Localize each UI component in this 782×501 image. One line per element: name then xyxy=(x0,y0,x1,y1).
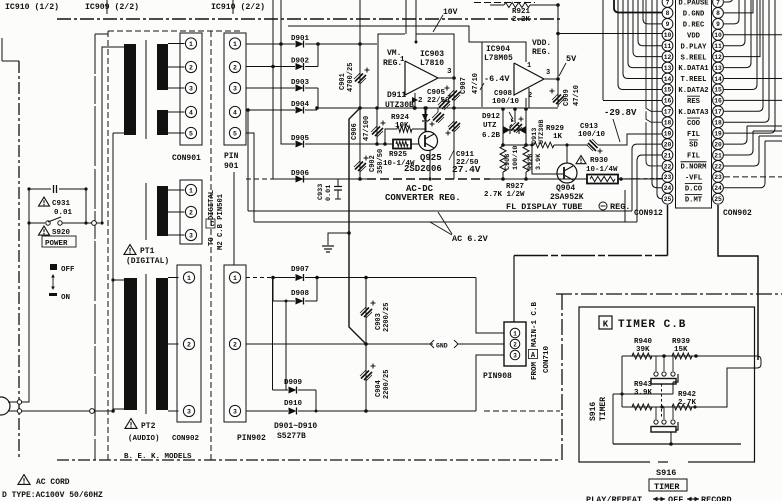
diode D903 xyxy=(296,85,304,92)
connector CON902 pin 11 xyxy=(713,40,724,51)
svg-text:AC 6.2V: AC 6.2V xyxy=(452,234,489,244)
svg-text:UTZ30B: UTZ30B xyxy=(538,120,546,144)
wire Q904 base xyxy=(532,145,563,174)
diode D904 xyxy=(296,107,304,114)
svg-text:T.REEL: T.REEL xyxy=(681,76,707,84)
svg-text:PIN902: PIN902 xyxy=(237,434,266,443)
wires PT1 secondary taps xyxy=(168,43,185,45)
wires CON902 deep pins up xyxy=(724,126,782,188)
label TIMER boxed xyxy=(649,479,687,491)
svg-text:K.DATA3: K.DATA3 xyxy=(678,109,708,117)
svg-text:C901: C901 xyxy=(339,73,347,90)
svg-text:2SA952K: 2SA952K xyxy=(550,193,584,202)
svg-text:D TYPE:AC100V 50/60HZ: D TYPE:AC100V 50/60HZ xyxy=(2,491,103,500)
svg-text:14: 14 xyxy=(714,76,722,83)
svg-text:100/10: 100/10 xyxy=(512,146,520,170)
svg-text:22/50: 22/50 xyxy=(427,97,450,105)
svg-text:B. E. K. MODELS: B. E. K. MODELS xyxy=(124,453,192,461)
connector CON902 pin 18 xyxy=(713,117,724,128)
svg-text:10: 10 xyxy=(714,32,722,39)
svg-text:PT2: PT2 xyxy=(141,422,156,431)
wires PT2 primary taps xyxy=(113,279,124,281)
wire PIN901 D904 row xyxy=(246,109,295,111)
label OFF xyxy=(50,264,57,270)
zener diode thermal xyxy=(424,108,426,114)
connector CON902 pin 20 xyxy=(713,139,724,150)
wire D905 feed xyxy=(281,44,295,144)
wire VDD to pin10 xyxy=(558,33,656,35)
svg-text:S.REEL: S.REEL xyxy=(681,54,707,62)
connector CON902 pin 25 xyxy=(713,193,724,204)
svg-text:2: 2 xyxy=(233,341,237,348)
wire transformer primary feed vertical xyxy=(112,133,114,411)
svg-text:3.9K: 3.9K xyxy=(535,153,543,170)
svg-text:16: 16 xyxy=(714,98,722,105)
svg-text:2: 2 xyxy=(187,341,191,348)
svg-text:2200/25: 2200/25 xyxy=(383,370,391,399)
svg-text:18: 18 xyxy=(714,120,722,127)
connector CON912 pin 19 xyxy=(662,128,673,139)
svg-text:15: 15 xyxy=(714,87,722,94)
capacitor C908 vertical xyxy=(500,146,506,172)
wire pin23 -VFL xyxy=(656,178,662,180)
svg-text:D901: D901 xyxy=(291,35,310,43)
connector CON912 pin 17 xyxy=(662,106,673,117)
wire 10V loop xyxy=(405,0,407,34)
diode D907 xyxy=(296,274,304,281)
resistor R925 boxed xyxy=(393,140,411,149)
svg-text:2: 2 xyxy=(189,209,193,216)
wire stub from IC909 xyxy=(106,0,108,14)
connector CON912 pin 20 xyxy=(662,139,673,150)
svg-text:C909: C909 xyxy=(563,89,571,106)
wire 10V line xyxy=(288,26,482,42)
svg-text:3: 3 xyxy=(513,352,517,359)
resistor R939 xyxy=(672,353,692,359)
wire D901 D902 cathode join xyxy=(305,43,318,45)
label S920 xyxy=(39,226,50,235)
svg-text:D.GND: D.GND xyxy=(683,11,705,19)
wire zener bridge verticals xyxy=(502,108,504,145)
wire timer left bus xyxy=(613,393,673,395)
connector PIN901 xyxy=(224,33,246,145)
svg-text:PIN908: PIN908 xyxy=(483,372,512,381)
svg-text:25: 25 xyxy=(714,196,722,203)
svg-text:VDD: VDD xyxy=(687,32,701,40)
svg-text:2: 2 xyxy=(189,64,193,71)
connector CON912 pin 15 xyxy=(662,84,673,95)
svg-text:C908: C908 xyxy=(504,154,512,170)
wire timer mid rail xyxy=(622,406,727,408)
svg-text:OFF: OFF xyxy=(668,495,683,501)
svg-text:MAIN-1 C.B: MAIN-1 C.B xyxy=(531,301,539,347)
svg-text:IC904: IC904 xyxy=(486,45,510,54)
wire timer top rail xyxy=(622,355,754,357)
wire pin3 row xyxy=(246,410,288,412)
capacitor C905 xyxy=(438,99,450,110)
connector CON912 pin 9 xyxy=(662,18,673,29)
wire zener bridge horizontal xyxy=(503,129,526,131)
connector CON902 pin 21 xyxy=(713,150,724,161)
boundary dash-dot timer horizontal xyxy=(556,293,782,295)
wire IC910 feed to D902 row xyxy=(272,0,274,67)
wire IC910 feed to D901 row xyxy=(280,0,282,44)
wire pin23 dashed right xyxy=(724,176,782,178)
ground symbol xyxy=(328,233,349,245)
svg-text:K.DATA1: K.DATA1 xyxy=(678,65,709,73)
wire FIL rail left xyxy=(503,144,534,146)
svg-text:C911: C911 xyxy=(456,151,475,159)
svg-text:FIL: FIL xyxy=(687,131,700,139)
wire pin25 top hook xyxy=(657,0,662,199)
wires PT2 secondary taps xyxy=(168,277,179,279)
svg-text:D.PAUSE: D.PAUSE xyxy=(678,0,709,8)
svg-text:1: 1 xyxy=(400,56,405,64)
IC904 box xyxy=(481,42,483,107)
label R930 10-1/4W xyxy=(576,156,586,164)
wire D903 D904 cathode join xyxy=(305,87,318,89)
svg-text:K.DATA2: K.DATA2 xyxy=(678,87,708,95)
wire R930 to pin23 xyxy=(618,178,636,180)
svg-text:2.2K: 2.2K xyxy=(512,16,531,24)
connector CON902 pin 8 xyxy=(713,8,724,19)
svg-text:PT1: PT1 xyxy=(140,247,155,256)
connector CON902 pin 12 xyxy=(713,51,724,62)
svg-text:25: 25 xyxy=(664,196,672,203)
svg-text:22: 22 xyxy=(714,163,722,170)
arrow from IC904 pin2 xyxy=(509,112,513,119)
wire pin25 net to PIN908 xyxy=(513,256,515,323)
svg-text:47/10: 47/10 xyxy=(573,85,581,106)
wire timer bottom rail xyxy=(613,443,741,445)
svg-text:UTZ: UTZ xyxy=(483,122,497,130)
AC cord connector circles xyxy=(17,400,21,404)
svg-text:15K: 15K xyxy=(674,346,688,354)
svg-text:CON902: CON902 xyxy=(723,209,752,218)
svg-text:10V: 10V xyxy=(443,8,458,17)
transformer PT2 core xyxy=(145,274,147,414)
switch S916 link dashed xyxy=(661,384,663,419)
svg-text:D.MT: D.MT xyxy=(685,196,703,204)
FL box right edge xyxy=(624,190,626,222)
svg-text:47/10: 47/10 xyxy=(472,73,480,94)
wire primary top feed xyxy=(102,47,124,223)
svg-text:R942: R942 xyxy=(678,391,697,399)
svg-text:1: 1 xyxy=(233,41,237,48)
resistor R929 xyxy=(534,142,554,148)
AC bushing on power pack edge xyxy=(92,221,97,226)
svg-text:(AUDIO): (AUDIO) xyxy=(128,435,160,443)
switch S916 lower contacts xyxy=(655,407,657,419)
svg-text:R943: R943 xyxy=(634,381,653,389)
transformer PT1 secondary lower winding xyxy=(157,110,168,135)
svg-text:3: 3 xyxy=(187,408,191,415)
connector CON902 pin 23 xyxy=(713,171,724,182)
svg-text:C902: C902 xyxy=(369,155,377,172)
svg-text:24: 24 xyxy=(664,185,672,192)
wire GND rail xyxy=(246,343,504,345)
svg-text:C906: C906 xyxy=(351,123,359,140)
svg-text:9: 9 xyxy=(666,21,670,28)
wire minus VFL line dashed left xyxy=(246,178,283,180)
svg-text:S916: S916 xyxy=(656,468,676,478)
svg-text:D903: D903 xyxy=(291,79,310,87)
wires CON902 exit right xyxy=(724,0,782,100)
svg-text:22: 22 xyxy=(664,163,672,170)
capacitor C902 xyxy=(359,108,361,179)
svg-text:8: 8 xyxy=(666,10,670,17)
svg-text:4700/25: 4700/25 xyxy=(347,63,355,92)
wire D906 feed xyxy=(273,67,283,180)
power pack outline left xyxy=(94,34,96,460)
svg-text:20: 20 xyxy=(664,141,672,148)
boundary dash-dot top horizontal xyxy=(57,18,560,20)
svg-text:D902: D902 xyxy=(291,58,310,66)
svg-text:21: 21 xyxy=(714,152,722,159)
svg-text:CON901: CON901 xyxy=(172,154,201,163)
diode D905 xyxy=(296,141,304,148)
svg-text:2: 2 xyxy=(513,341,517,348)
diode D906 xyxy=(296,176,304,183)
capacitor C909 xyxy=(557,79,559,107)
svg-text:-6.4V: -6.4V xyxy=(484,74,510,84)
svg-text:C907: C907 xyxy=(460,77,468,94)
wire PIN902 pin1 row dashed xyxy=(246,277,273,279)
svg-text:GND: GND xyxy=(436,343,448,350)
diode D909 xyxy=(289,387,297,394)
connector label column box xyxy=(676,0,712,208)
IC903 box right edge lower xyxy=(453,44,455,108)
resistor R928 xyxy=(523,146,529,172)
wire rectified rail to IC903 xyxy=(318,43,377,45)
wire PIN901 D903 row xyxy=(246,87,295,89)
zener diode D913 xyxy=(519,126,526,134)
wire CON902 pin25 to timer xyxy=(718,205,758,360)
wire switch common down xyxy=(670,432,672,444)
wire PIN901 pin4 to heater line A xyxy=(246,108,250,112)
svg-text:D906: D906 xyxy=(291,170,310,178)
capacitor C911 xyxy=(448,121,460,132)
svg-text:13: 13 xyxy=(714,65,722,72)
svg-text:4: 4 xyxy=(189,109,193,116)
svg-text:39K: 39K xyxy=(636,346,650,354)
wire switch to primary xyxy=(86,222,100,224)
svg-text:23: 23 xyxy=(714,174,722,181)
svg-text:20: 20 xyxy=(714,141,722,148)
capacitor C9 thermal xyxy=(432,112,444,123)
op-amp regulator IC903 triangle xyxy=(405,61,438,95)
label ON xyxy=(49,293,57,296)
svg-text:C908: C908 xyxy=(494,90,513,98)
connector PIN902 xyxy=(224,265,246,422)
svg-text:7: 7 xyxy=(716,0,720,6)
connector CON902 pin 19 xyxy=(713,128,724,139)
svg-text:D905: D905 xyxy=(291,135,310,143)
svg-text:5: 5 xyxy=(189,130,193,137)
resistor R930 boxed xyxy=(587,175,618,184)
svg-text:D901~D910: D901~D910 xyxy=(274,422,317,431)
svg-text:Q925: Q925 xyxy=(420,153,442,163)
wire ground drop diagonal xyxy=(349,108,366,344)
svg-text:10K: 10K xyxy=(395,122,409,130)
IC903 box xyxy=(378,34,405,108)
svg-text:POWER: POWER xyxy=(45,240,68,248)
svg-text:L7810: L7810 xyxy=(420,59,444,68)
connector PIN908 xyxy=(504,322,526,366)
svg-text:2200/25: 2200/25 xyxy=(383,303,391,332)
svg-text:C: C xyxy=(210,221,214,229)
wire main rail C901 vertical xyxy=(359,0,361,44)
svg-text:4: 4 xyxy=(233,109,237,116)
wire heater line B (AC 6.2V) xyxy=(254,221,637,223)
svg-text:1K: 1K xyxy=(553,133,563,141)
resistor R942 xyxy=(672,404,692,410)
svg-text:3.9K: 3.9K xyxy=(634,389,653,397)
transformer PT1 primary winding xyxy=(124,44,136,135)
svg-text:C913: C913 xyxy=(580,123,599,131)
svg-text:0.01: 0.01 xyxy=(54,209,73,217)
wire D908 branch xyxy=(273,278,295,302)
svg-text:3: 3 xyxy=(233,408,237,415)
svg-text:TIMER: TIMER xyxy=(654,482,680,492)
svg-text:6.2B: 6.2B xyxy=(482,132,501,140)
zener diode D912 xyxy=(503,126,510,134)
wire to PIN908 pin1 xyxy=(476,278,504,334)
junction AC neutral xyxy=(111,409,115,413)
connector CON912 pin 16 xyxy=(662,95,673,106)
svg-text:1: 1 xyxy=(189,187,193,194)
svg-text:VDD.: VDD. xyxy=(532,39,551,48)
svg-text:D.CO: D.CO xyxy=(685,185,703,193)
svg-text:S5277B: S5277B xyxy=(277,432,306,441)
svg-text:11: 11 xyxy=(664,43,672,50)
svg-text:D912: D912 xyxy=(482,113,501,121)
svg-text:3: 3 xyxy=(189,85,193,92)
wire D908 down leg xyxy=(285,301,287,390)
svg-text:3: 3 xyxy=(546,69,550,77)
svg-text:23: 23 xyxy=(664,174,672,181)
wire D908 out xyxy=(305,300,317,302)
svg-text:D.NORM: D.NORM xyxy=(681,164,707,172)
svg-text:5V: 5V xyxy=(566,54,577,64)
svg-text:FIL: FIL xyxy=(687,153,700,161)
capacitor C913 xyxy=(587,139,598,151)
svg-text:3: 3 xyxy=(189,232,193,239)
svg-text:24: 24 xyxy=(714,185,722,192)
transformer PT2 primary winding xyxy=(124,278,137,410)
capacitor C931 xyxy=(29,188,51,190)
capacitor C901 xyxy=(359,44,361,108)
boundary dash-dot timer vertical xyxy=(561,294,563,460)
switch S920 xyxy=(29,222,45,224)
svg-text:REG.: REG. xyxy=(532,48,551,57)
connector CON902 pin 10 xyxy=(713,29,724,40)
svg-text:C905: C905 xyxy=(427,89,446,97)
svg-text:2SD2006: 2SD2006 xyxy=(404,164,442,174)
svg-text:2.7K 1/2W: 2.7K 1/2W xyxy=(484,191,525,199)
wire pin20 hook xyxy=(632,144,662,149)
timer board box xyxy=(579,307,755,462)
connector CON912 pin 7 xyxy=(662,0,673,7)
wire D907 out xyxy=(305,277,476,279)
wires CON902 right hooks from top xyxy=(724,0,775,133)
transformer PT1 digital core xyxy=(145,183,147,240)
wire from off-page top left xyxy=(1,38,3,61)
svg-text:R928: R928 xyxy=(527,154,535,170)
svg-text:R924: R924 xyxy=(391,114,410,122)
wire to PIN908 pin3 xyxy=(476,355,504,411)
svg-text:M2 C.B PIN501: M2 C.B PIN501 xyxy=(217,193,225,250)
svg-text:TIMER: TIMER xyxy=(599,397,608,421)
svg-text:D.REC: D.REC xyxy=(683,21,705,29)
wire D910 out xyxy=(298,410,476,412)
connector CON902 transformer side xyxy=(177,265,201,422)
transformer PT1 secondary upper winding xyxy=(157,44,168,90)
svg-text:RECORD: RECORD xyxy=(701,495,732,501)
svg-text:901: 901 xyxy=(224,162,239,171)
wire timer staircase to pin25 net xyxy=(695,368,754,407)
AC plug xyxy=(0,397,17,415)
svg-text:27.4V: 27.4V xyxy=(452,164,481,175)
wire IC904 pin2 down xyxy=(528,88,530,108)
capacitor C904 xyxy=(365,344,367,411)
diode D908 xyxy=(296,298,304,305)
svg-text:C933: C933 xyxy=(317,184,325,200)
svg-text:3: 3 xyxy=(447,68,452,76)
wire minus VFL line mid xyxy=(283,178,367,180)
connector CON902 pin 15 xyxy=(713,84,724,95)
svg-text:IC903: IC903 xyxy=(420,50,444,59)
resistor R940 xyxy=(632,353,652,359)
svg-text:REG.: REG. xyxy=(610,202,630,212)
wire AC hot to switch xyxy=(22,223,29,402)
capacitor C910 xyxy=(510,122,522,133)
svg-text:CON912: CON912 xyxy=(634,209,663,218)
svg-text:COO: COO xyxy=(687,120,701,128)
svg-text:19: 19 xyxy=(664,130,672,137)
svg-text:R930: R930 xyxy=(590,157,609,165)
svg-text:D909: D909 xyxy=(284,379,303,387)
svg-text:R921: R921 xyxy=(512,8,531,16)
svg-text:(DIGITAL): (DIGITAL) xyxy=(126,257,169,266)
transistor Q904 xyxy=(557,163,577,183)
label GND xyxy=(433,340,457,349)
diode D910 xyxy=(289,408,297,415)
svg-text:100/10: 100/10 xyxy=(492,98,520,106)
connector CON902 pin 7 xyxy=(713,0,724,7)
wire IC903 pin2 down xyxy=(414,93,416,108)
svg-text:CON902: CON902 xyxy=(172,435,200,443)
wire pin21 hook xyxy=(637,155,662,161)
svg-text:L78M05: L78M05 xyxy=(484,54,513,63)
label K TIMER C.B xyxy=(599,316,612,329)
capacitor C906 xyxy=(376,108,378,144)
connector CON912 pin 11 xyxy=(662,40,673,51)
svg-text:1: 1 xyxy=(187,275,191,282)
FL display box bottom xyxy=(256,210,625,212)
transformer PT2 secondary winding xyxy=(156,278,168,410)
svg-text:CON710: CON710 xyxy=(543,345,551,373)
svg-text:ON: ON xyxy=(61,294,70,302)
svg-text:AC CORD: AC CORD xyxy=(36,478,70,487)
connector CON912 pin 10 xyxy=(662,29,673,40)
svg-text:-29.8V: -29.8V xyxy=(604,108,637,118)
callout -29.8V xyxy=(613,119,620,142)
svg-text:15: 15 xyxy=(664,87,672,94)
transistor Q925 xyxy=(419,132,438,151)
label POWER xyxy=(42,236,76,247)
svg-text:D907: D907 xyxy=(291,266,309,274)
